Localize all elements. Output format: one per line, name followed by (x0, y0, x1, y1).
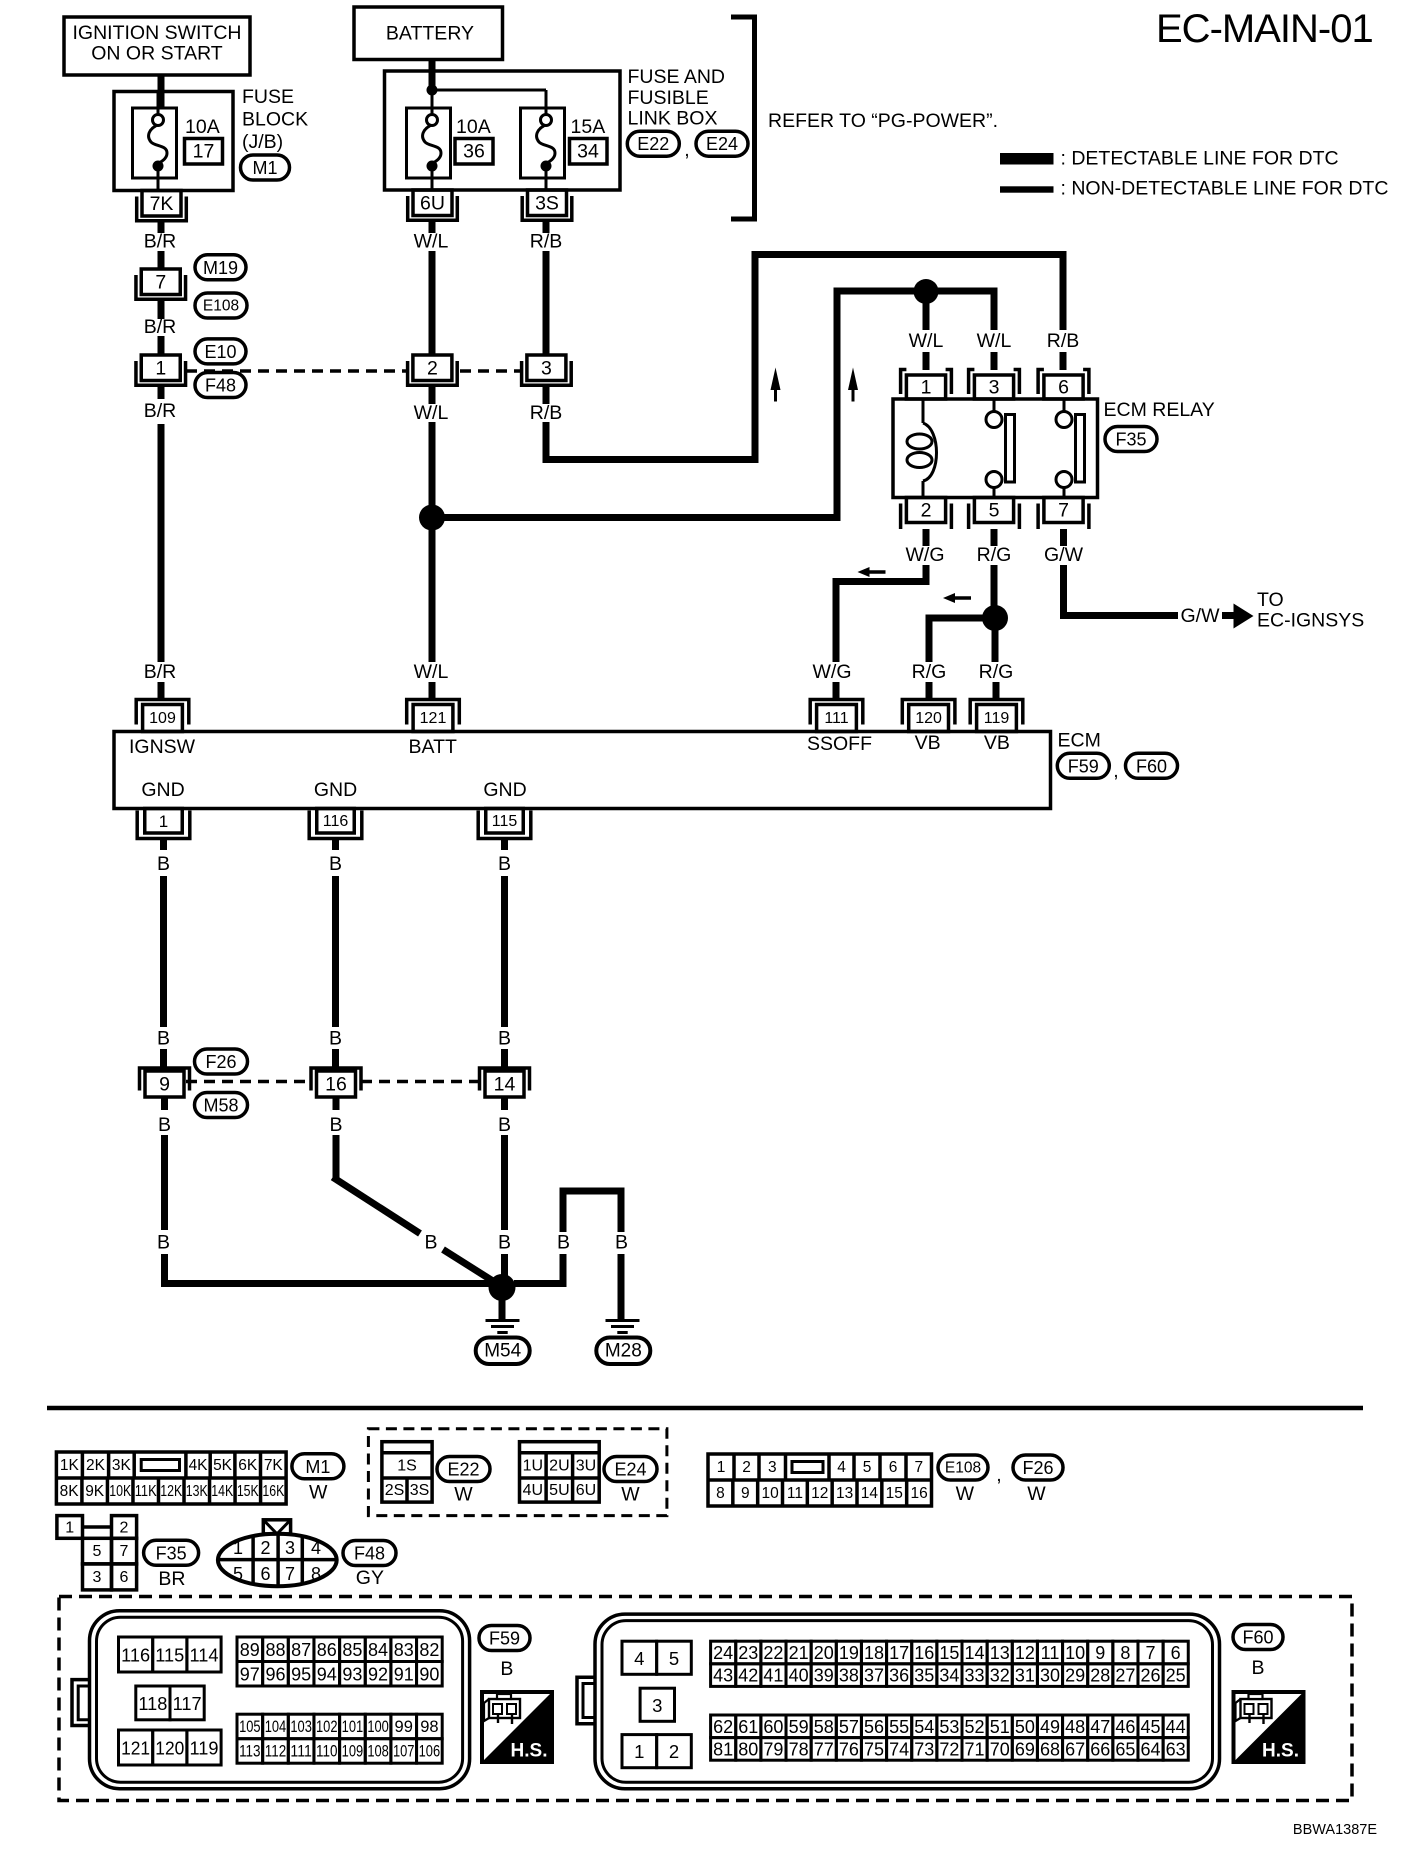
svg-text:3S: 3S (535, 193, 559, 215)
svg-text:67: 67 (1065, 1739, 1085, 1759)
svg-text:31: 31 (1015, 1666, 1035, 1686)
svg-text:5: 5 (669, 1648, 679, 1669)
svg-text:W/L: W/L (414, 402, 449, 424)
svg-text:ECM RELAY: ECM RELAY (1104, 399, 1215, 421)
svg-text:R/B: R/B (1047, 330, 1080, 352)
svg-text:10: 10 (1065, 1643, 1085, 1663)
svg-text:73: 73 (914, 1739, 934, 1759)
svg-text:13K: 13K (186, 1483, 209, 1500)
svg-text:119: 119 (984, 710, 1010, 727)
svg-text:4: 4 (311, 1538, 321, 1558)
svg-text:14: 14 (494, 1074, 516, 1096)
svg-text:B/R: B/R (144, 316, 177, 338)
svg-text:F60: F60 (1136, 756, 1167, 776)
svg-text:85: 85 (342, 1640, 362, 1660)
svg-text:5: 5 (863, 1459, 872, 1476)
svg-text:53: 53 (939, 1717, 959, 1737)
svg-text:2: 2 (742, 1459, 751, 1476)
svg-text:61: 61 (738, 1717, 758, 1737)
svg-text:5: 5 (93, 1543, 102, 1560)
svg-text:BBWA1387E: BBWA1387E (1293, 1822, 1377, 1838)
svg-text:117: 117 (173, 1693, 202, 1714)
svg-text:3: 3 (285, 1538, 295, 1558)
svg-text:64: 64 (1141, 1739, 1161, 1759)
svg-text:121: 121 (121, 1738, 150, 1759)
svg-text:W: W (309, 1482, 328, 1504)
svg-text:3: 3 (768, 1459, 777, 1476)
svg-text:,: , (1113, 760, 1118, 782)
svg-text:60: 60 (763, 1717, 783, 1737)
svg-text:5: 5 (233, 1564, 243, 1584)
svg-text:2: 2 (260, 1538, 270, 1558)
svg-text:15A: 15A (571, 116, 606, 138)
svg-text:B: B (329, 1028, 342, 1050)
svg-text:79: 79 (763, 1739, 783, 1759)
svg-text:VB: VB (915, 732, 941, 754)
svg-text:116: 116 (323, 813, 349, 830)
svg-text:5U: 5U (549, 1482, 569, 1499)
svg-text:43: 43 (713, 1666, 733, 1686)
svg-text:58: 58 (814, 1717, 834, 1737)
svg-text:F35: F35 (1115, 430, 1146, 450)
svg-text:R/B: R/B (530, 231, 563, 253)
svg-text:GY: GY (356, 1567, 384, 1589)
svg-text:R/B: R/B (530, 402, 563, 424)
svg-text:23: 23 (738, 1643, 758, 1663)
svg-text:6: 6 (1058, 377, 1069, 399)
svg-text:121: 121 (420, 710, 447, 727)
svg-text:113: 113 (239, 1742, 261, 1760)
svg-text:120: 120 (915, 710, 942, 727)
svg-text:92: 92 (368, 1664, 388, 1684)
svg-text:38: 38 (839, 1666, 859, 1686)
svg-text:14K: 14K (211, 1483, 234, 1500)
svg-text:1: 1 (155, 358, 166, 380)
svg-text:10: 10 (761, 1485, 779, 1502)
svg-text:B: B (157, 1232, 170, 1254)
svg-text:B: B (615, 1232, 628, 1254)
svg-text:55: 55 (889, 1717, 909, 1737)
svg-text:34: 34 (939, 1666, 959, 1686)
svg-text:65: 65 (1115, 1739, 1135, 1759)
svg-text:GND: GND (314, 779, 357, 801)
svg-text:W/G: W/G (906, 544, 945, 566)
svg-text:44: 44 (1166, 1717, 1186, 1737)
svg-text:W: W (454, 1484, 473, 1506)
svg-text:B: B (500, 1658, 513, 1680)
svg-text:F26: F26 (205, 1052, 236, 1072)
svg-text:26: 26 (1141, 1666, 1161, 1686)
svg-text:19: 19 (839, 1643, 859, 1663)
svg-text:8K: 8K (60, 1483, 80, 1500)
svg-text:E24: E24 (614, 1460, 646, 1480)
svg-text:51: 51 (990, 1717, 1010, 1737)
svg-text:13: 13 (836, 1485, 853, 1502)
svg-text:7: 7 (914, 1459, 923, 1476)
svg-text:6U: 6U (576, 1482, 596, 1499)
svg-text:7: 7 (1058, 500, 1069, 522)
svg-text:8: 8 (716, 1485, 725, 1502)
svg-text:15K: 15K (237, 1483, 260, 1500)
svg-text:F60: F60 (1242, 1628, 1273, 1648)
svg-text:41: 41 (763, 1666, 783, 1686)
svg-text:3: 3 (989, 377, 1000, 399)
svg-text:W: W (1027, 1483, 1046, 1505)
svg-text:78: 78 (789, 1739, 809, 1759)
svg-text:83: 83 (394, 1640, 414, 1660)
svg-text:,: , (684, 139, 689, 161)
svg-text:66: 66 (1090, 1739, 1110, 1759)
svg-text:3S: 3S (410, 1482, 430, 1499)
svg-text:BR: BR (158, 1568, 185, 1590)
svg-text:1U: 1U (523, 1457, 543, 1474)
svg-text:80: 80 (738, 1739, 758, 1759)
svg-text:VB: VB (984, 732, 1010, 754)
svg-text:B/R: B/R (144, 231, 177, 253)
svg-text:10A: 10A (456, 116, 491, 138)
svg-text:3: 3 (541, 358, 552, 380)
svg-text:103: 103 (290, 1718, 312, 1736)
svg-text:50: 50 (1015, 1717, 1035, 1737)
svg-text:B: B (329, 853, 342, 875)
svg-text:9: 9 (159, 1074, 170, 1096)
svg-text:1: 1 (65, 1519, 74, 1536)
svg-text:R/G: R/G (912, 661, 947, 683)
svg-text:68: 68 (1040, 1739, 1060, 1759)
svg-text:7: 7 (120, 1543, 129, 1560)
svg-text:97: 97 (240, 1664, 260, 1684)
svg-text:89: 89 (240, 1640, 260, 1660)
svg-text:33: 33 (965, 1666, 985, 1686)
svg-text:6: 6 (1171, 1643, 1181, 1663)
svg-text:71: 71 (965, 1739, 985, 1759)
svg-text:88: 88 (265, 1640, 285, 1660)
svg-text:E22: E22 (447, 1460, 479, 1480)
svg-text:: NON-DETECTABLE LINE FOR DTC: : NON-DETECTABLE LINE FOR DTC (1061, 178, 1389, 200)
svg-text:93: 93 (342, 1664, 362, 1684)
svg-text:6: 6 (120, 1569, 129, 1586)
svg-text:17: 17 (889, 1643, 909, 1663)
svg-text:84: 84 (368, 1640, 388, 1660)
svg-text:105: 105 (239, 1718, 261, 1736)
svg-text:R/G: R/G (979, 661, 1014, 683)
svg-text:,: , (996, 1464, 1001, 1486)
svg-text:11: 11 (787, 1485, 803, 1502)
svg-text:GND: GND (141, 779, 184, 801)
svg-text:62: 62 (713, 1717, 733, 1737)
svg-text:16: 16 (910, 1485, 927, 1502)
svg-text:B: B (498, 853, 511, 875)
svg-text:4K: 4K (189, 1457, 209, 1474)
svg-text:115: 115 (492, 813, 518, 830)
svg-text:B: B (158, 1114, 171, 1136)
svg-text:EC-MAIN-01: EC-MAIN-01 (1156, 7, 1373, 51)
svg-text:1: 1 (717, 1459, 726, 1476)
svg-text:E24: E24 (706, 134, 738, 154)
svg-text:81: 81 (713, 1739, 733, 1759)
svg-text:91: 91 (394, 1664, 414, 1684)
svg-text:B: B (498, 1028, 511, 1050)
svg-text:28: 28 (1090, 1666, 1110, 1686)
svg-text:114: 114 (190, 1645, 219, 1666)
svg-text:4: 4 (634, 1648, 644, 1669)
svg-text:34: 34 (577, 141, 599, 163)
svg-text:12: 12 (1015, 1643, 1035, 1663)
svg-text:BATTERY: BATTERY (386, 23, 474, 45)
svg-text:(J/B): (J/B) (242, 131, 283, 153)
svg-text:98: 98 (420, 1718, 438, 1736)
svg-text:8: 8 (1120, 1643, 1130, 1663)
svg-text:BATT: BATT (409, 736, 457, 758)
svg-text:22: 22 (763, 1643, 783, 1663)
svg-text:5: 5 (989, 500, 1000, 522)
svg-text:B: B (498, 1232, 511, 1254)
svg-text:6U: 6U (420, 193, 445, 215)
svg-text:39: 39 (814, 1666, 834, 1686)
svg-text:56: 56 (864, 1717, 884, 1737)
svg-text:IGNSW: IGNSW (129, 736, 196, 758)
svg-text:12: 12 (811, 1485, 828, 1502)
svg-text:LINK BOX: LINK BOX (628, 108, 718, 130)
svg-text:30: 30 (1040, 1666, 1060, 1686)
svg-text:W/L: W/L (977, 330, 1012, 352)
svg-text:: DETECTABLE LINE FOR DTC: : DETECTABLE LINE FOR DTC (1061, 148, 1339, 170)
svg-text:2U: 2U (549, 1457, 569, 1474)
svg-text:7K: 7K (150, 193, 174, 215)
svg-text:75: 75 (864, 1739, 884, 1759)
svg-text:11: 11 (1041, 1643, 1060, 1663)
svg-text:77: 77 (814, 1739, 834, 1759)
svg-text:108: 108 (367, 1742, 389, 1760)
svg-text:9: 9 (1095, 1643, 1105, 1663)
svg-text:9: 9 (741, 1485, 750, 1502)
svg-text:TO: TO (1257, 589, 1284, 611)
svg-text:6K: 6K (238, 1457, 258, 1474)
svg-text:42: 42 (738, 1666, 758, 1686)
svg-text:106: 106 (419, 1742, 441, 1760)
svg-text:119: 119 (190, 1738, 219, 1759)
svg-text:B: B (157, 1028, 170, 1050)
svg-text:120: 120 (155, 1738, 184, 1759)
svg-text:8: 8 (311, 1564, 321, 1584)
svg-text:6: 6 (260, 1564, 270, 1584)
svg-text:72: 72 (939, 1739, 959, 1759)
svg-text:FUSE AND: FUSE AND (628, 66, 726, 88)
svg-text:24: 24 (713, 1643, 733, 1663)
svg-text:46: 46 (1115, 1717, 1135, 1737)
svg-text:27: 27 (1115, 1666, 1135, 1686)
svg-text:7: 7 (155, 272, 166, 294)
svg-text:76: 76 (839, 1739, 859, 1759)
svg-text:M58: M58 (203, 1096, 238, 1116)
svg-text:IGNITION SWITCH: IGNITION SWITCH (73, 22, 242, 44)
svg-text:3U: 3U (576, 1457, 596, 1474)
svg-text:GND: GND (483, 779, 526, 801)
svg-text:3: 3 (652, 1695, 662, 1716)
svg-text:1K: 1K (60, 1457, 80, 1474)
svg-text:B: B (1251, 1657, 1264, 1679)
svg-text:F35: F35 (156, 1543, 187, 1563)
svg-text:57: 57 (839, 1717, 859, 1737)
svg-text:1: 1 (233, 1538, 243, 1558)
svg-text:W/L: W/L (909, 330, 944, 352)
svg-text:104: 104 (265, 1718, 287, 1736)
svg-text:7: 7 (285, 1564, 295, 1584)
svg-text:70: 70 (990, 1739, 1010, 1759)
svg-text:32: 32 (990, 1666, 1010, 1686)
svg-text:W: W (621, 1484, 640, 1506)
svg-text:10A: 10A (185, 116, 220, 138)
svg-text:M1: M1 (252, 158, 277, 178)
svg-text:17: 17 (193, 141, 215, 163)
svg-text:96: 96 (265, 1664, 285, 1684)
svg-text:40: 40 (789, 1666, 809, 1686)
svg-text:16: 16 (325, 1074, 347, 1096)
svg-text:90: 90 (419, 1664, 439, 1684)
svg-text:59: 59 (789, 1717, 809, 1737)
svg-text:87: 87 (291, 1640, 311, 1660)
svg-text:69: 69 (1015, 1739, 1035, 1759)
svg-text:E10: E10 (204, 342, 236, 362)
svg-text:W: W (956, 1483, 975, 1505)
svg-text:3K: 3K (112, 1457, 132, 1474)
svg-text:2: 2 (427, 358, 438, 380)
svg-text:116: 116 (121, 1645, 150, 1666)
svg-text:9K: 9K (85, 1483, 105, 1500)
svg-text:37: 37 (864, 1666, 884, 1686)
svg-text:G/W: G/W (1181, 605, 1221, 627)
svg-text:115: 115 (155, 1645, 184, 1666)
svg-text:1: 1 (634, 1741, 644, 1762)
svg-text:112: 112 (265, 1742, 287, 1760)
svg-text:F59: F59 (1068, 756, 1099, 776)
svg-text:2: 2 (669, 1741, 679, 1762)
svg-text:35: 35 (914, 1666, 934, 1686)
svg-text:29: 29 (1065, 1666, 1085, 1686)
svg-text:FUSE: FUSE (242, 86, 294, 108)
svg-text:2S: 2S (385, 1482, 405, 1499)
svg-text:109: 109 (342, 1742, 364, 1760)
svg-text:E22: E22 (637, 134, 669, 154)
svg-text:6: 6 (889, 1459, 898, 1476)
svg-text:FUSIBLE: FUSIBLE (628, 87, 709, 109)
svg-text:45: 45 (1141, 1717, 1161, 1737)
svg-text:63: 63 (1166, 1739, 1186, 1759)
svg-text:B/R: B/R (144, 661, 177, 683)
svg-text:H.S.: H.S. (1262, 1741, 1299, 1762)
svg-text:W/G: W/G (813, 661, 852, 683)
svg-text:E108: E108 (203, 298, 239, 315)
svg-text:14: 14 (965, 1643, 985, 1663)
svg-text:4U: 4U (523, 1482, 543, 1499)
svg-text:W/L: W/L (414, 661, 449, 683)
svg-text:10K: 10K (109, 1483, 132, 1500)
svg-text:25: 25 (1166, 1666, 1186, 1686)
svg-text:W/L: W/L (414, 231, 449, 253)
svg-text:15: 15 (886, 1485, 903, 1502)
svg-text:B: B (329, 1114, 342, 1136)
svg-text:B: B (557, 1232, 570, 1254)
svg-text:B/R: B/R (144, 400, 177, 422)
svg-text:111: 111 (824, 710, 848, 727)
svg-text:REFER TO “PG-POWER”.: REFER TO “PG-POWER”. (768, 110, 998, 132)
svg-text:M19: M19 (203, 258, 238, 278)
svg-text:5K: 5K (213, 1457, 233, 1474)
svg-text:1: 1 (921, 377, 932, 399)
svg-text:118: 118 (138, 1693, 167, 1714)
svg-text:F48: F48 (354, 1544, 385, 1564)
svg-text:15: 15 (939, 1643, 959, 1663)
svg-text:52: 52 (965, 1717, 985, 1737)
svg-text:SSOFF: SSOFF (807, 733, 872, 755)
svg-text:18: 18 (864, 1643, 884, 1663)
svg-text:E108: E108 (945, 1460, 981, 1477)
svg-text:36: 36 (463, 141, 485, 163)
svg-text:F59: F59 (489, 1629, 520, 1649)
svg-text:48: 48 (1065, 1717, 1085, 1737)
svg-text:2: 2 (120, 1519, 129, 1536)
svg-text:EC-IGNSYS: EC-IGNSYS (1257, 610, 1364, 632)
svg-text:100: 100 (367, 1718, 389, 1736)
svg-text:36: 36 (889, 1666, 909, 1686)
svg-text:95: 95 (291, 1664, 311, 1684)
svg-text:82: 82 (419, 1640, 439, 1660)
svg-text:16K: 16K (262, 1483, 285, 1500)
svg-text:F26: F26 (1022, 1458, 1053, 1478)
svg-text:ON OR START: ON OR START (91, 43, 223, 65)
svg-text:4: 4 (837, 1459, 846, 1476)
svg-text:13: 13 (990, 1643, 1010, 1663)
svg-text:7K: 7K (264, 1457, 284, 1474)
svg-text:B: B (498, 1114, 511, 1136)
svg-text:M54: M54 (484, 1341, 521, 1362)
svg-text:49: 49 (1040, 1717, 1060, 1737)
svg-text:14: 14 (861, 1485, 879, 1502)
svg-text:M28: M28 (605, 1341, 642, 1362)
svg-text:21: 21 (789, 1643, 809, 1663)
svg-text:20: 20 (814, 1643, 834, 1663)
svg-text:2K: 2K (86, 1457, 106, 1474)
svg-text:102: 102 (316, 1718, 338, 1736)
svg-text:G/W: G/W (1044, 544, 1084, 566)
svg-text:94: 94 (317, 1664, 337, 1684)
svg-text:1S: 1S (397, 1457, 417, 1474)
svg-text:54: 54 (914, 1717, 934, 1737)
svg-text:99: 99 (395, 1718, 413, 1736)
svg-text:F48: F48 (205, 376, 236, 396)
svg-text:12K: 12K (160, 1483, 183, 1500)
svg-text:B: B (424, 1232, 437, 1254)
svg-text:101: 101 (342, 1718, 364, 1736)
svg-text:H.S.: H.S. (511, 1741, 548, 1762)
svg-text:109: 109 (149, 710, 176, 727)
svg-text:3: 3 (93, 1569, 102, 1586)
svg-text:BLOCK: BLOCK (242, 109, 308, 131)
svg-text:R/G: R/G (977, 544, 1012, 566)
svg-text:7: 7 (1146, 1643, 1156, 1663)
svg-text:ECM: ECM (1058, 730, 1101, 752)
svg-text:1: 1 (159, 812, 168, 831)
svg-text:74: 74 (889, 1739, 909, 1759)
svg-text:111: 111 (290, 1742, 312, 1760)
svg-text:110: 110 (316, 1742, 338, 1760)
svg-text:47: 47 (1090, 1717, 1110, 1737)
svg-text:86: 86 (317, 1640, 337, 1660)
svg-text:B: B (157, 853, 170, 875)
svg-text:2: 2 (921, 500, 932, 522)
svg-text:M1: M1 (305, 1457, 330, 1477)
svg-text:107: 107 (393, 1742, 415, 1760)
